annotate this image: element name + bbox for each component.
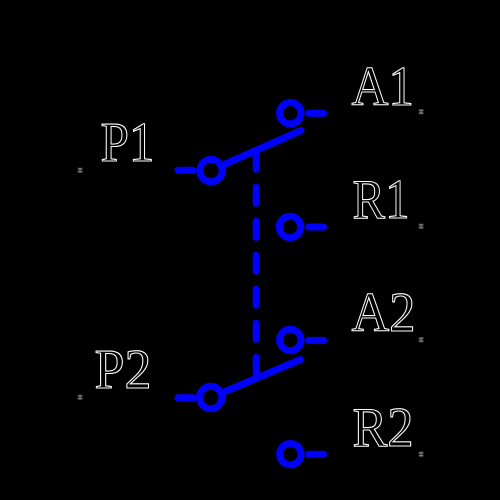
wire pin P1 (178, 167, 193, 174)
contact circle P1 (pole 1) (200, 159, 222, 181)
wire pin A1 (309, 110, 324, 117)
pin number mark at P1 (78, 168, 82, 172)
pin number mark at P2 (78, 395, 82, 399)
svg-text:A1: A1 (352, 56, 415, 118)
svg-text:A2: A2 (352, 282, 416, 344)
switch arm pole 2 (P2 to A2) (224, 360, 301, 393)
mechanical linkage dashed line (253, 153, 260, 374)
svg-text:P2: P2 (95, 339, 152, 401)
contact circle P2 (pole 2) (200, 386, 222, 408)
svg-text:R2: R2 (353, 397, 414, 459)
svg-text:P1: P1 (101, 112, 155, 174)
pin number mark at R2 (419, 452, 423, 456)
wire pin P2 (178, 394, 193, 401)
wire pin R1 (309, 224, 324, 231)
switch arm pole 1 (P1 to A1) (224, 131, 301, 165)
contact circle A1 (280, 103, 301, 124)
contact circle R1 (279, 216, 300, 237)
pin number mark at R1 (419, 224, 423, 228)
contact circle R2 (280, 444, 301, 465)
pin number mark at A2 (419, 338, 423, 342)
contact circle A2 (280, 329, 301, 350)
svg-text:R1: R1 (353, 169, 410, 231)
wire pin A2 (309, 337, 324, 344)
pin number mark at A1 (419, 110, 423, 114)
wire pin R2 (309, 451, 324, 458)
